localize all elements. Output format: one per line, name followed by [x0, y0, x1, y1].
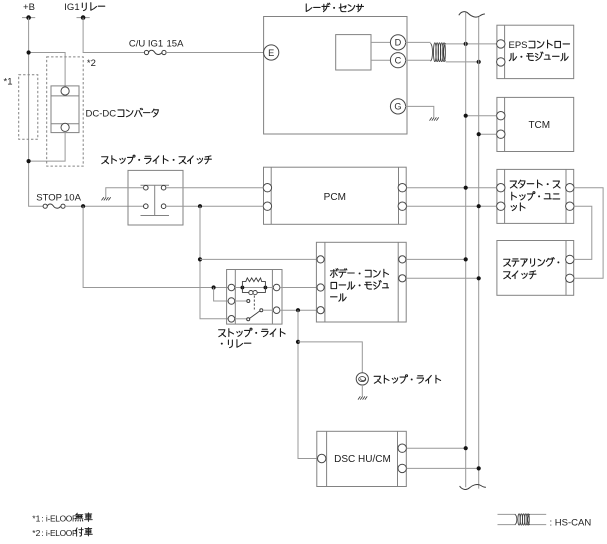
svg-text:10A: 10A: [64, 193, 82, 204]
svg-text:PCM: PCM: [324, 192, 346, 203]
svg-text:G: G: [394, 102, 401, 112]
svg-text:DSC HU/CM: DSC HU/CM: [334, 454, 391, 465]
svg-text::: :: [41, 513, 43, 523]
svg-text:*1: *1: [32, 514, 40, 524]
svg-text:E: E: [268, 48, 274, 58]
svg-text:STOP: STOP: [36, 193, 62, 204]
svg-text:15A: 15A: [167, 38, 185, 49]
svg-text:TCM: TCM: [528, 120, 550, 131]
svg-text:: HS-CAN: : HS-CAN: [550, 517, 592, 528]
svg-text:*1: *1: [4, 77, 13, 88]
svg-text:D: D: [395, 38, 402, 48]
svg-text:C/U IG1: C/U IG1: [129, 38, 163, 49]
svg-text:*2: *2: [87, 58, 96, 69]
svg-text:+B: +B: [23, 2, 35, 13]
svg-text:DC-DC: DC-DC: [86, 109, 117, 120]
svg-text::: :: [41, 528, 43, 538]
svg-text:IG1: IG1: [64, 2, 79, 13]
svg-text:i-ELOOP: i-ELOOP: [46, 528, 78, 538]
svg-text:*2: *2: [32, 528, 40, 538]
svg-text:i-ELOOP: i-ELOOP: [46, 514, 78, 524]
svg-text:C: C: [395, 56, 402, 66]
svg-text:EPS: EPS: [509, 40, 528, 51]
